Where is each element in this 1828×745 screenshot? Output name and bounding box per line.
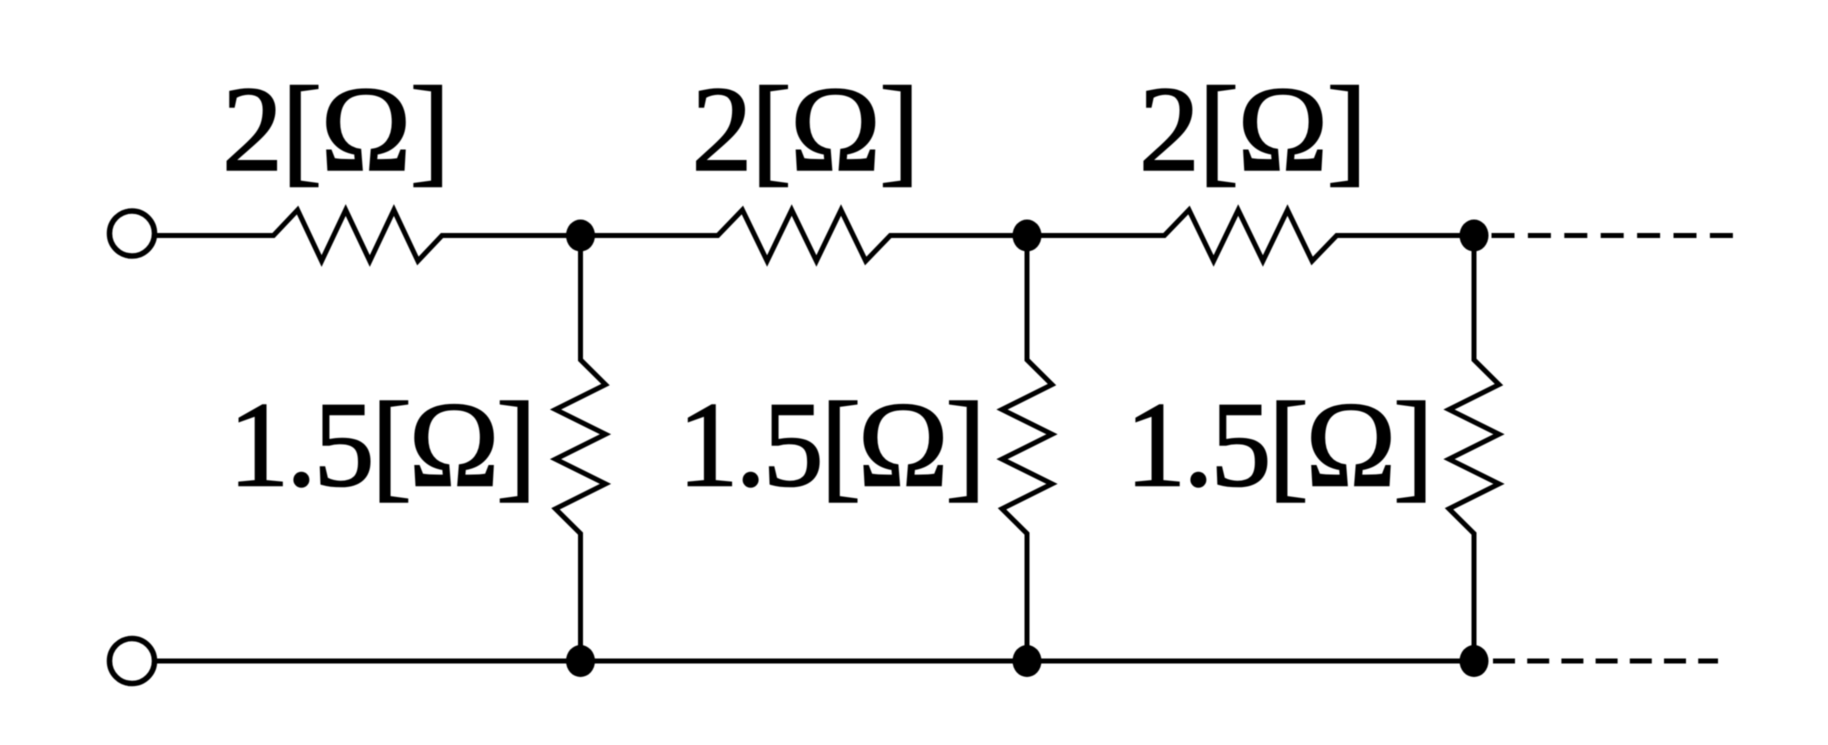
svg-text:1.5[Ω]: 1.5[Ω] bbox=[1125, 378, 1430, 513]
svg-text:1.5[Ω]: 1.5[Ω] bbox=[228, 378, 533, 513]
svg-text:1.5[Ω]: 1.5[Ω] bbox=[678, 378, 983, 513]
svg-text:2[Ω]: 2[Ω] bbox=[1139, 62, 1366, 197]
svg-text:2[Ω]: 2[Ω] bbox=[691, 62, 918, 197]
svg-text:2[Ω]: 2[Ω] bbox=[222, 62, 449, 197]
